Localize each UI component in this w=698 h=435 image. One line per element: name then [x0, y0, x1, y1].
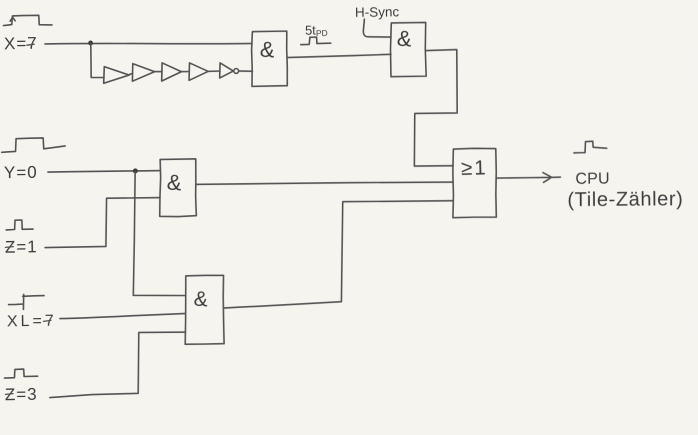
wire OR output to CPU with arrowhead: [496, 173, 560, 183]
wire Y junction down to AND4: [133, 172, 185, 296]
svg-text:Y=0: Y=0: [4, 163, 38, 183]
buffer B1: [104, 67, 130, 84]
wire AND3 output to OR gate: [196, 182, 453, 184]
AND gate U4 box: [185, 275, 224, 344]
node junction on Y wire: [133, 168, 138, 173]
svg-text:&: &: [259, 36, 276, 62]
node junction on X wire: [88, 41, 93, 46]
AND gate U3 box: [160, 159, 197, 217]
svg-text:X=7: X=7: [4, 34, 38, 54]
AND gate U2 box: [390, 22, 426, 76]
svg-text:&: &: [396, 26, 413, 52]
svg-text:H-Sync: H-Sync: [355, 4, 400, 20]
inverter B5: [220, 63, 234, 78]
arrowhead on X pulse rising edge: [10, 17, 15, 21]
crossbar on Z of Z=3: [5, 393, 13, 396]
pulse symbol input X: [3, 15, 52, 25]
wire Y to AND3: [48, 171, 160, 173]
OR gate U5 box: [453, 148, 497, 217]
wire XL to AND4: [60, 313, 186, 318]
wire B1 to B2: [129, 73, 132, 74]
crossbar on Z of Z=1: [6, 246, 14, 249]
svg-text:≥1: ≥1: [461, 156, 488, 180]
buffer B2: [132, 64, 154, 82]
wire AND4 output to OR gate: [224, 201, 453, 308]
svg-text:CPU: CPU: [575, 171, 610, 188]
wire inverter to AND1: [239, 70, 253, 72]
wire B2 to B3: [155, 71, 162, 73]
AND gate U1 box: [252, 31, 288, 86]
svg-text:XL=7: XL=7: [7, 313, 57, 331]
wire AND2 output to OR gate: [414, 50, 457, 167]
inverter B5 bubble: [234, 69, 239, 74]
pulse symbol input Y: [2, 138, 65, 152]
step symbol input XL: [9, 294, 45, 309]
wire junction down to inverter chain: [91, 44, 104, 78]
pulse symbol 5tpd: [301, 37, 331, 45]
pulse symbol input Z1: [6, 220, 33, 230]
buffer B4: [189, 63, 208, 81]
crossbar on 7 of X=7: [27, 44, 34, 45]
pulse symbol input Z3: [4, 369, 37, 378]
crossbar on 7 of XL=7: [43, 320, 51, 321]
wire Z3 to AND4: [50, 332, 186, 398]
pulse symbol CPU output: [574, 141, 607, 153]
wire Z1 to AND3: [45, 198, 160, 248]
wire AND1 output to AND2: [287, 54, 391, 57]
wire B4 to B5: [208, 70, 220, 72]
svg-text:&: &: [193, 287, 209, 311]
buffer B3: [162, 63, 182, 81]
wire B3 to B4: [181, 71, 189, 73]
wire H-Sync to AND2: [363, 19, 391, 37]
wire X to AND1: [45, 42, 252, 45]
svg-text:(Tile-Zähler): (Tile-Zähler): [567, 188, 683, 211]
svg-text:&: &: [166, 169, 183, 195]
